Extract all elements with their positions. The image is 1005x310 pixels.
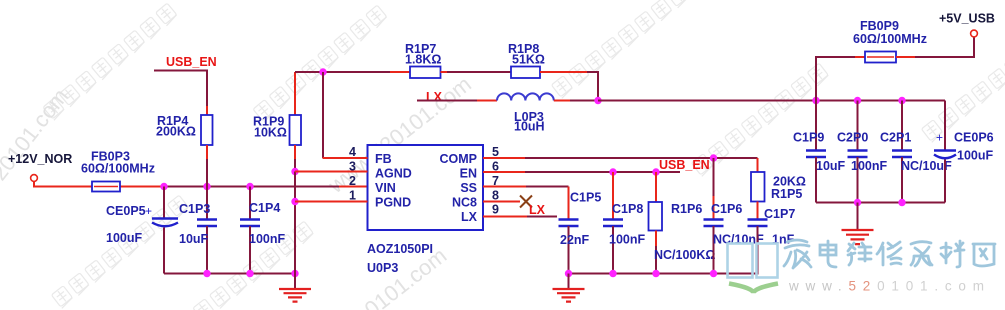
resistor R1P6 bbox=[655, 172, 657, 202]
svg-text:10uH: 10uH bbox=[514, 120, 545, 134]
svg-text:1: 1 bbox=[349, 189, 356, 203]
capacitor C1P5 bbox=[559, 220, 579, 227]
node rail-FB0P9 bbox=[812, 97, 819, 104]
node EN-R1P6 bbox=[652, 168, 659, 175]
node rail-C2P1 bbox=[898, 97, 905, 104]
svg-text:LX: LX bbox=[529, 203, 546, 217]
svg-text:AGND: AGND bbox=[375, 167, 412, 181]
svg-text:www.520101.com: www.520101.com bbox=[788, 279, 991, 294]
node bottom-C1P6 bbox=[710, 270, 717, 277]
ferrite bead FB0P3 bbox=[92, 182, 120, 192]
wire +12V rail to VIN bbox=[164, 186, 339, 188]
svg-text:COMP: COMP bbox=[440, 152, 478, 166]
wire bottom rail left bbox=[164, 273, 295, 275]
svg-text:10uF: 10uF bbox=[816, 159, 846, 173]
svg-text:PGND: PGND bbox=[375, 196, 411, 210]
node EN-C1P8 bbox=[609, 168, 616, 175]
svg-text:FB: FB bbox=[375, 152, 392, 166]
svg-text:LX: LX bbox=[461, 210, 478, 224]
node rail-C1P4 bbox=[246, 183, 253, 190]
ground (right section) bbox=[857, 203, 859, 230]
node bottom-C1P4 bbox=[246, 270, 253, 277]
ground (mid section) bbox=[568, 274, 570, 289]
wire to ferrite FB0P9 bbox=[816, 57, 855, 101]
resistor R1P8 bbox=[511, 67, 540, 79]
node rail-C2P0 bbox=[854, 97, 861, 104]
svg-text:100nF: 100nF bbox=[851, 159, 887, 173]
resistor R1P4 bbox=[201, 115, 213, 145]
watermark row right-edge bbox=[921, 29, 1005, 142]
svg-text:10KΩ: 10KΩ bbox=[254, 126, 287, 140]
wire inductor to LX node bbox=[554, 100, 570, 102]
svg-text:LX: LX bbox=[426, 90, 443, 104]
wire pin3 AGND bbox=[295, 171, 368, 173]
wire pin7 SS bbox=[483, 186, 526, 188]
capacitor CE0P5 bbox=[163, 187, 165, 219]
svg-text:C1P6: C1P6 bbox=[711, 202, 742, 216]
capacitor CE0P6 bbox=[944, 101, 946, 151]
resistor R1P5 bbox=[757, 158, 759, 172]
wire +12V from terminal through bead bbox=[34, 182, 164, 187]
svg-text:4: 4 bbox=[349, 145, 356, 159]
capacitor C1P4 bbox=[249, 187, 251, 220]
node bottom-C1P8 bbox=[609, 270, 616, 277]
node bottom-C2P1 bbox=[898, 199, 905, 206]
svg-text:C1P5: C1P5 bbox=[570, 191, 601, 205]
wire AGND-PGND ground link bbox=[294, 172, 296, 202]
wire LX left bbox=[417, 100, 477, 102]
watermark row center bbox=[551, 0, 689, 98]
resistor R1P9 bbox=[294, 72, 296, 115]
capacitor C1P3 bbox=[206, 187, 208, 220]
wire pin4 FB bbox=[323, 157, 368, 159]
watermark row bottom-left bbox=[51, 195, 189, 308]
svg-text:+5V_USB: +5V_USB bbox=[939, 12, 995, 26]
wire pin1 PGND bbox=[295, 201, 368, 203]
node PGND bbox=[291, 198, 298, 205]
capacitor C1P9 bbox=[815, 101, 817, 151]
svg-text:C1P4: C1P4 bbox=[249, 201, 280, 215]
svg-text:9: 9 bbox=[492, 203, 499, 217]
wire USB_EN to R1P4 bbox=[154, 71, 207, 107]
wire pin8 NC8 stub bbox=[483, 201, 520, 203]
svg-text:60Ω/100MHz: 60Ω/100MHz bbox=[853, 32, 927, 46]
wire FB net top bbox=[295, 71, 390, 73]
svg-text:200KΩ: 200KΩ bbox=[156, 125, 196, 139]
svg-text:C2P0: C2P0 bbox=[837, 131, 868, 145]
capacitor C1P7 bbox=[748, 220, 768, 227]
svg-text:100uF: 100uF bbox=[957, 149, 993, 163]
inductor L0P3 bbox=[497, 93, 554, 100]
svg-text:C1P7: C1P7 bbox=[764, 207, 795, 221]
node bottom-R1P6 bbox=[652, 270, 659, 277]
watermark row top-left bbox=[43, 3, 178, 120]
svg-text:+: + bbox=[145, 204, 152, 218]
capacitor C2P0 bbox=[857, 101, 859, 151]
ground (left section) bbox=[294, 203, 296, 289]
site logo squares bbox=[728, 244, 778, 278]
site logo brace bbox=[729, 284, 778, 294]
site name calligraphy bbox=[784, 240, 995, 268]
wire +5V rail bbox=[598, 100, 945, 102]
svg-text:8: 8 bbox=[492, 189, 499, 203]
svg-text:CE0P5: CE0P5 bbox=[106, 204, 146, 218]
svg-text:FB0P9: FB0P9 bbox=[860, 19, 899, 33]
svg-text:60Ω/100MHz: 60Ω/100MHz bbox=[81, 162, 155, 176]
svg-text:C1P3: C1P3 bbox=[179, 202, 210, 216]
svg-text:USB_EN: USB_EN bbox=[659, 158, 710, 172]
wire FB vertical to pin4 bbox=[322, 72, 324, 158]
svg-text:10uF: 10uF bbox=[179, 232, 209, 246]
node rail-C1P3 bbox=[203, 183, 210, 190]
svg-text:+: + bbox=[936, 131, 943, 145]
svg-text:R1P5: R1P5 bbox=[771, 187, 802, 201]
node bottom-C1P5 bbox=[565, 270, 572, 277]
svg-text:NC/100KΩ: NC/100KΩ bbox=[654, 248, 715, 262]
svg-text:U0P3: U0P3 bbox=[367, 261, 398, 275]
watermark row mid-right bbox=[691, 63, 829, 176]
node AGND bbox=[291, 168, 298, 175]
svg-text:SS: SS bbox=[460, 181, 477, 195]
wire pin9 LX bbox=[483, 216, 527, 218]
watermark row bottom-mid bbox=[176, 221, 314, 310]
svg-text:C2P1: C2P1 bbox=[880, 131, 911, 145]
node bottom-C2P0 bbox=[854, 199, 861, 206]
svg-text:VIN: VIN bbox=[375, 181, 396, 195]
svg-text:1.8KΩ: 1.8KΩ bbox=[405, 53, 441, 67]
wire between R1P7 R1P8 bbox=[447, 71, 511, 73]
svg-text:+12V_NOR: +12V_NOR bbox=[8, 152, 72, 166]
svg-text:R1P6: R1P6 bbox=[671, 202, 702, 216]
node FB-top bbox=[319, 68, 326, 75]
svg-text:C1P9: C1P9 bbox=[793, 131, 824, 145]
svg-text:2: 2 bbox=[349, 174, 356, 188]
op-amp/regulator U0P3 AOZ1050PI body bbox=[368, 145, 484, 230]
svg-text:100nF: 100nF bbox=[249, 232, 285, 246]
capacitor C2P1 bbox=[901, 101, 903, 151]
resistor R1P7 bbox=[390, 71, 410, 73]
svg-text:AOZ1050PI: AOZ1050PI bbox=[367, 242, 433, 256]
wire bottom rail mid bbox=[569, 273, 758, 275]
svg-text:5: 5 bbox=[492, 145, 499, 159]
capacitor C1P8 bbox=[612, 172, 614, 220]
node COMP-C1P6 bbox=[710, 154, 717, 161]
svg-text:22nF: 22nF bbox=[560, 233, 590, 247]
svg-text:USB_EN: USB_EN bbox=[166, 55, 217, 69]
svg-text:EN: EN bbox=[460, 167, 477, 181]
watermark row top-mid bbox=[253, 5, 388, 122]
svg-text:CE0P6: CE0P6 bbox=[954, 131, 994, 145]
svg-text:51KΩ: 51KΩ bbox=[512, 53, 545, 67]
ferrite bead FB0P9 bbox=[865, 52, 896, 63]
wire pin6 EN bbox=[483, 171, 525, 173]
capacitor C1P6 bbox=[713, 158, 715, 196]
svg-text:C1P8: C1P8 bbox=[612, 202, 643, 216]
svg-text:NC8: NC8 bbox=[452, 196, 477, 210]
wire bottom rail right bbox=[816, 202, 945, 204]
svg-text:100uF: 100uF bbox=[106, 231, 142, 245]
node bottom-C1P3 bbox=[203, 270, 210, 277]
node LX output bbox=[594, 97, 601, 104]
node rail-CE0P5 bbox=[160, 183, 167, 190]
svg-text:100nF: 100nF bbox=[609, 233, 645, 247]
wire R1P8 down to LX node bbox=[587, 72, 598, 101]
node bottom-ground bbox=[291, 270, 298, 277]
wire pin5 COMP bbox=[483, 157, 525, 159]
no-connect X on pin8 bbox=[520, 196, 532, 208]
